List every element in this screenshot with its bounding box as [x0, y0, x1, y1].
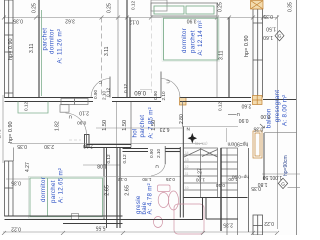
svg-text:1.001.50: 1.001.50	[263, 174, 283, 180]
svg-text:1.50: 1.50	[266, 25, 276, 31]
svg-text:2.10: 2.10	[79, 110, 89, 116]
svg-text:0.12: 0.12	[106, 154, 111, 164]
svg-text:parchet: parchet	[42, 28, 49, 51]
svg-text:0.12: 0.12	[123, 83, 128, 93]
right window column (balcony)	[253, 9, 263, 97]
door D1 leaf	[109, 77, 111, 98]
hol dim line lower	[10, 143, 203, 145]
bottom outer wall	[5, 216, 204, 224]
svg-text:5.55: 5.55	[96, 224, 106, 230]
stair landing lines	[184, 198, 248, 220]
svg-text:0.90: 0.90	[93, 89, 98, 99]
svg-text:2.10: 2.10	[156, 148, 161, 158]
sink	[154, 217, 163, 228]
svg-text:4.27: 4.27	[25, 162, 31, 172]
svg-text:gresogrant: gresogrant	[274, 90, 281, 123]
faint vertical dim	[151, 18, 153, 94]
svg-text:1.00: 1.00	[195, 178, 205, 183]
svg-text:2.80: 2.80	[179, 114, 185, 124]
hp dim extension	[226, 128, 228, 142]
central dim line	[117, 0, 119, 98]
svg-text:2.10: 2.10	[83, 142, 93, 148]
svg-text:0.12: 0.12	[131, 0, 136, 10]
svg-text:0.35: 0.35	[251, 185, 261, 191]
small dim line 1.08	[83, 164, 120, 166]
door D4 leaf + arc	[164, 146, 166, 164]
svg-text:0.60: 0.60	[134, 89, 146, 95]
landing top line	[182, 126, 238, 128]
svg-text:4.27: 4.27	[198, 168, 204, 178]
svg-text:0.12: 0.12	[129, 19, 139, 25]
svg-text:0.90: 0.90	[153, 90, 158, 100]
svg-text:14: 14	[185, 151, 189, 155]
svg-text:parchet: parchet	[190, 30, 197, 53]
svg-text:dormitor: dormitor	[40, 177, 47, 202]
green planter left balcony	[18, 102, 48, 114]
central wall	[126, 0, 128, 98]
svg-text:6.23: 6.23	[160, 126, 170, 132]
svg-text:3.11: 3.11	[219, 50, 225, 60]
threshold dashes	[69, 139, 81, 141]
svg-text:0.22: 0.22	[264, 220, 274, 226]
top-right window green sashes	[154, 6, 214, 14]
stair left wall	[180, 127, 183, 218]
svg-text:12: 12	[185, 165, 189, 169]
svg-text:0.25: 0.25	[165, 177, 175, 182]
svg-text:N: N	[187, 127, 190, 132]
svg-text:0.90: 0.90	[77, 120, 87, 125]
gas diamond top	[275, 31, 284, 41]
tan pier at hol wall	[180, 98, 187, 106]
svg-text:parchet: parchet	[50, 180, 57, 203]
stair right stringer	[220, 148, 222, 231]
svg-text:2.65: 2.65	[125, 185, 131, 196]
svg-text:1.80: 1.80	[142, 177, 152, 182]
bathtub lower	[174, 204, 204, 234]
left window column upper	[5, 0, 14, 98]
top-right room bed	[164, 18, 219, 60]
svg-text:11: 11	[185, 172, 189, 176]
left jamb line	[13, 148, 15, 162]
door D3 arc	[66, 113, 87, 135]
svg-text:2.30: 2.30	[44, 143, 54, 149]
svg-text:0.22: 0.22	[11, 226, 21, 232]
svg-text:0.35: 0.35	[11, 179, 21, 185]
small white door rect in green	[72, 214, 79, 220]
right edge border line	[296, 0, 298, 235]
svg-text:0.12: 0.12	[117, 177, 127, 182]
svg-text:hp=90cm: hp=90cm	[228, 140, 249, 146]
left room green finish line	[41, 10, 43, 96]
svg-text:hp= 0.90: hp= 0.90	[244, 35, 250, 57]
top-right window outer	[151, 3, 217, 16]
svg-text:1.50: 1.50	[122, 120, 128, 131]
tread numbers	[185, 151, 189, 190]
svg-text:A: 7.85 m²: A: 7.85 m²	[148, 107, 155, 139]
svg-text:hol: hol	[132, 128, 139, 137]
svg-text:0.25: 0.25	[107, 3, 113, 13]
hol dim vertical	[116, 102, 118, 148]
wardrobe rects left room bottom	[60, 99, 88, 113]
top-right pier rect	[151, 0, 167, 11]
staircase arrows	[184, 149, 218, 157]
stair upper wall line	[181, 102, 183, 127]
right dim vertical line	[277, 15, 279, 229]
bottom-left room green bed	[30, 178, 103, 217]
svg-text:A: 12.65 m²: A: 12.65 m²	[58, 168, 65, 203]
bottom-left room right wall	[103, 148, 105, 220]
left room right dim line	[101, 18, 103, 98]
svg-text:0.12: 0.12	[24, 101, 29, 111]
svg-text:1.50: 1.50	[102, 120, 108, 131]
hol horizontal dim line	[96, 127, 182, 129]
svg-text:0.35: 0.35	[17, 143, 27, 149]
svg-text:G: G	[278, 34, 282, 39]
svg-text:1.82: 1.82	[55, 121, 61, 131]
svg-text:2.35: 2.35	[223, 222, 233, 228]
shower edge line	[104, 176, 181, 178]
svg-text:3.90: 3.90	[187, 17, 197, 23]
svg-text:3.11: 3.11	[104, 46, 110, 56]
balcon lower lines	[262, 132, 300, 187]
svg-text:A: 8.00 m²: A: 8.00 m²	[281, 94, 288, 126]
dim arrow balcony	[228, 115, 265, 129]
svg-text:-1.75: -1.75	[0, 129, 2, 140]
svg-text:3.62: 3.62	[65, 18, 75, 24]
svg-text:0.12: 0.12	[218, 101, 223, 111]
svg-text:0.35: 0.35	[253, 125, 263, 131]
svg-text:A: 4.78 m²: A: 4.78 m²	[147, 183, 154, 215]
svg-text:10: 10	[185, 186, 189, 190]
top-right room right wall	[216, 3, 218, 98]
svg-text:G: G	[281, 181, 285, 186]
svg-text:A: 11.26 m²: A: 11.26 m²	[57, 29, 64, 64]
svg-text:2.60: 2.60	[241, 103, 251, 109]
tan pier below right window	[253, 96, 263, 105]
svg-text:2.65: 2.65	[105, 185, 111, 196]
north arrow	[188, 134, 196, 143]
svg-text:hp=90cm: hp=90cm	[283, 155, 289, 176]
svg-text:parchet: parchet	[139, 115, 146, 138]
svg-text:8.00: 8.00	[260, 113, 270, 119]
stairwell right wall	[248, 148, 250, 232]
svg-text:0.35: 0.35	[263, 13, 273, 19]
svg-text:0.35: 0.35	[13, 18, 23, 24]
main horizontal wall (hol top)	[5, 98, 297, 102]
svg-text:0.25: 0.25	[32, 3, 38, 13]
svg-text:0.10: 0.10	[215, 183, 225, 188]
svg-text:0.35: 0.35	[288, 2, 294, 12]
right window column bottom	[253, 215, 263, 235]
svg-text:3.11: 3.11	[29, 43, 35, 53]
top dim ticks	[2, 16, 279, 20]
svg-text:1.60: 1.60	[263, 34, 273, 40]
bathroom left wall	[117, 148, 120, 229]
balcony inner line	[263, 133, 265, 180]
dim line above D2	[140, 89, 152, 91]
left window column lower	[5, 161, 14, 216]
svg-text:0.90: 0.90	[239, 117, 249, 123]
svg-text:0.90: 0.90	[149, 148, 154, 158]
hol bottom wall	[87, 145, 132, 148]
svg-text:2.10: 2.10	[161, 91, 166, 101]
door D3 leaf	[86, 135, 88, 148]
toilet	[158, 185, 179, 210]
svg-text:hp= 0.90: hp= 0.90	[8, 121, 14, 143]
gas diamond bottom	[278, 178, 287, 188]
pier stub in hol	[85, 135, 90, 148]
bottom dimension line	[3, 231, 277, 233]
door D2 arc	[161, 79, 180, 98]
bathroom top wall	[123, 149, 181, 152]
svg-text:0.25: 0.25	[218, 2, 224, 12]
top dimension line	[3, 17, 277, 19]
svg-text:0.12: 0.12	[122, 154, 127, 164]
central wall lower continuation	[130, 102, 132, 148]
staircase right flight	[221, 148, 238, 235]
svg-text:hp=0.90: hp=0.90	[232, 174, 249, 179]
svg-text:1.08: 1.08	[97, 162, 107, 168]
balcony outer edge line	[2, 95, 4, 163]
svg-text:(09.48): (09.48)	[194, 141, 207, 146]
door D1 arc	[91, 79, 110, 98]
svg-text:dormitor: dormitor	[181, 28, 188, 53]
radiator right-mid	[253, 131, 262, 158]
svg-text:13: 13	[185, 158, 189, 162]
small dim line 0.35 left	[6, 178, 30, 180]
svg-text:0.12: 0.12	[106, 87, 111, 97]
radiator top right	[251, 1, 264, 10]
svg-text:hp= 0.90: hp= 0.90	[8, 38, 14, 60]
svg-text:dormitor: dormitor	[49, 29, 56, 54]
svg-text:A: 12.14 m²: A: 12.14 m²	[197, 20, 204, 55]
left room wall	[38, 0, 40, 98]
staircase left flight	[184, 148, 218, 198]
door D2 leaf	[160, 72, 162, 98]
